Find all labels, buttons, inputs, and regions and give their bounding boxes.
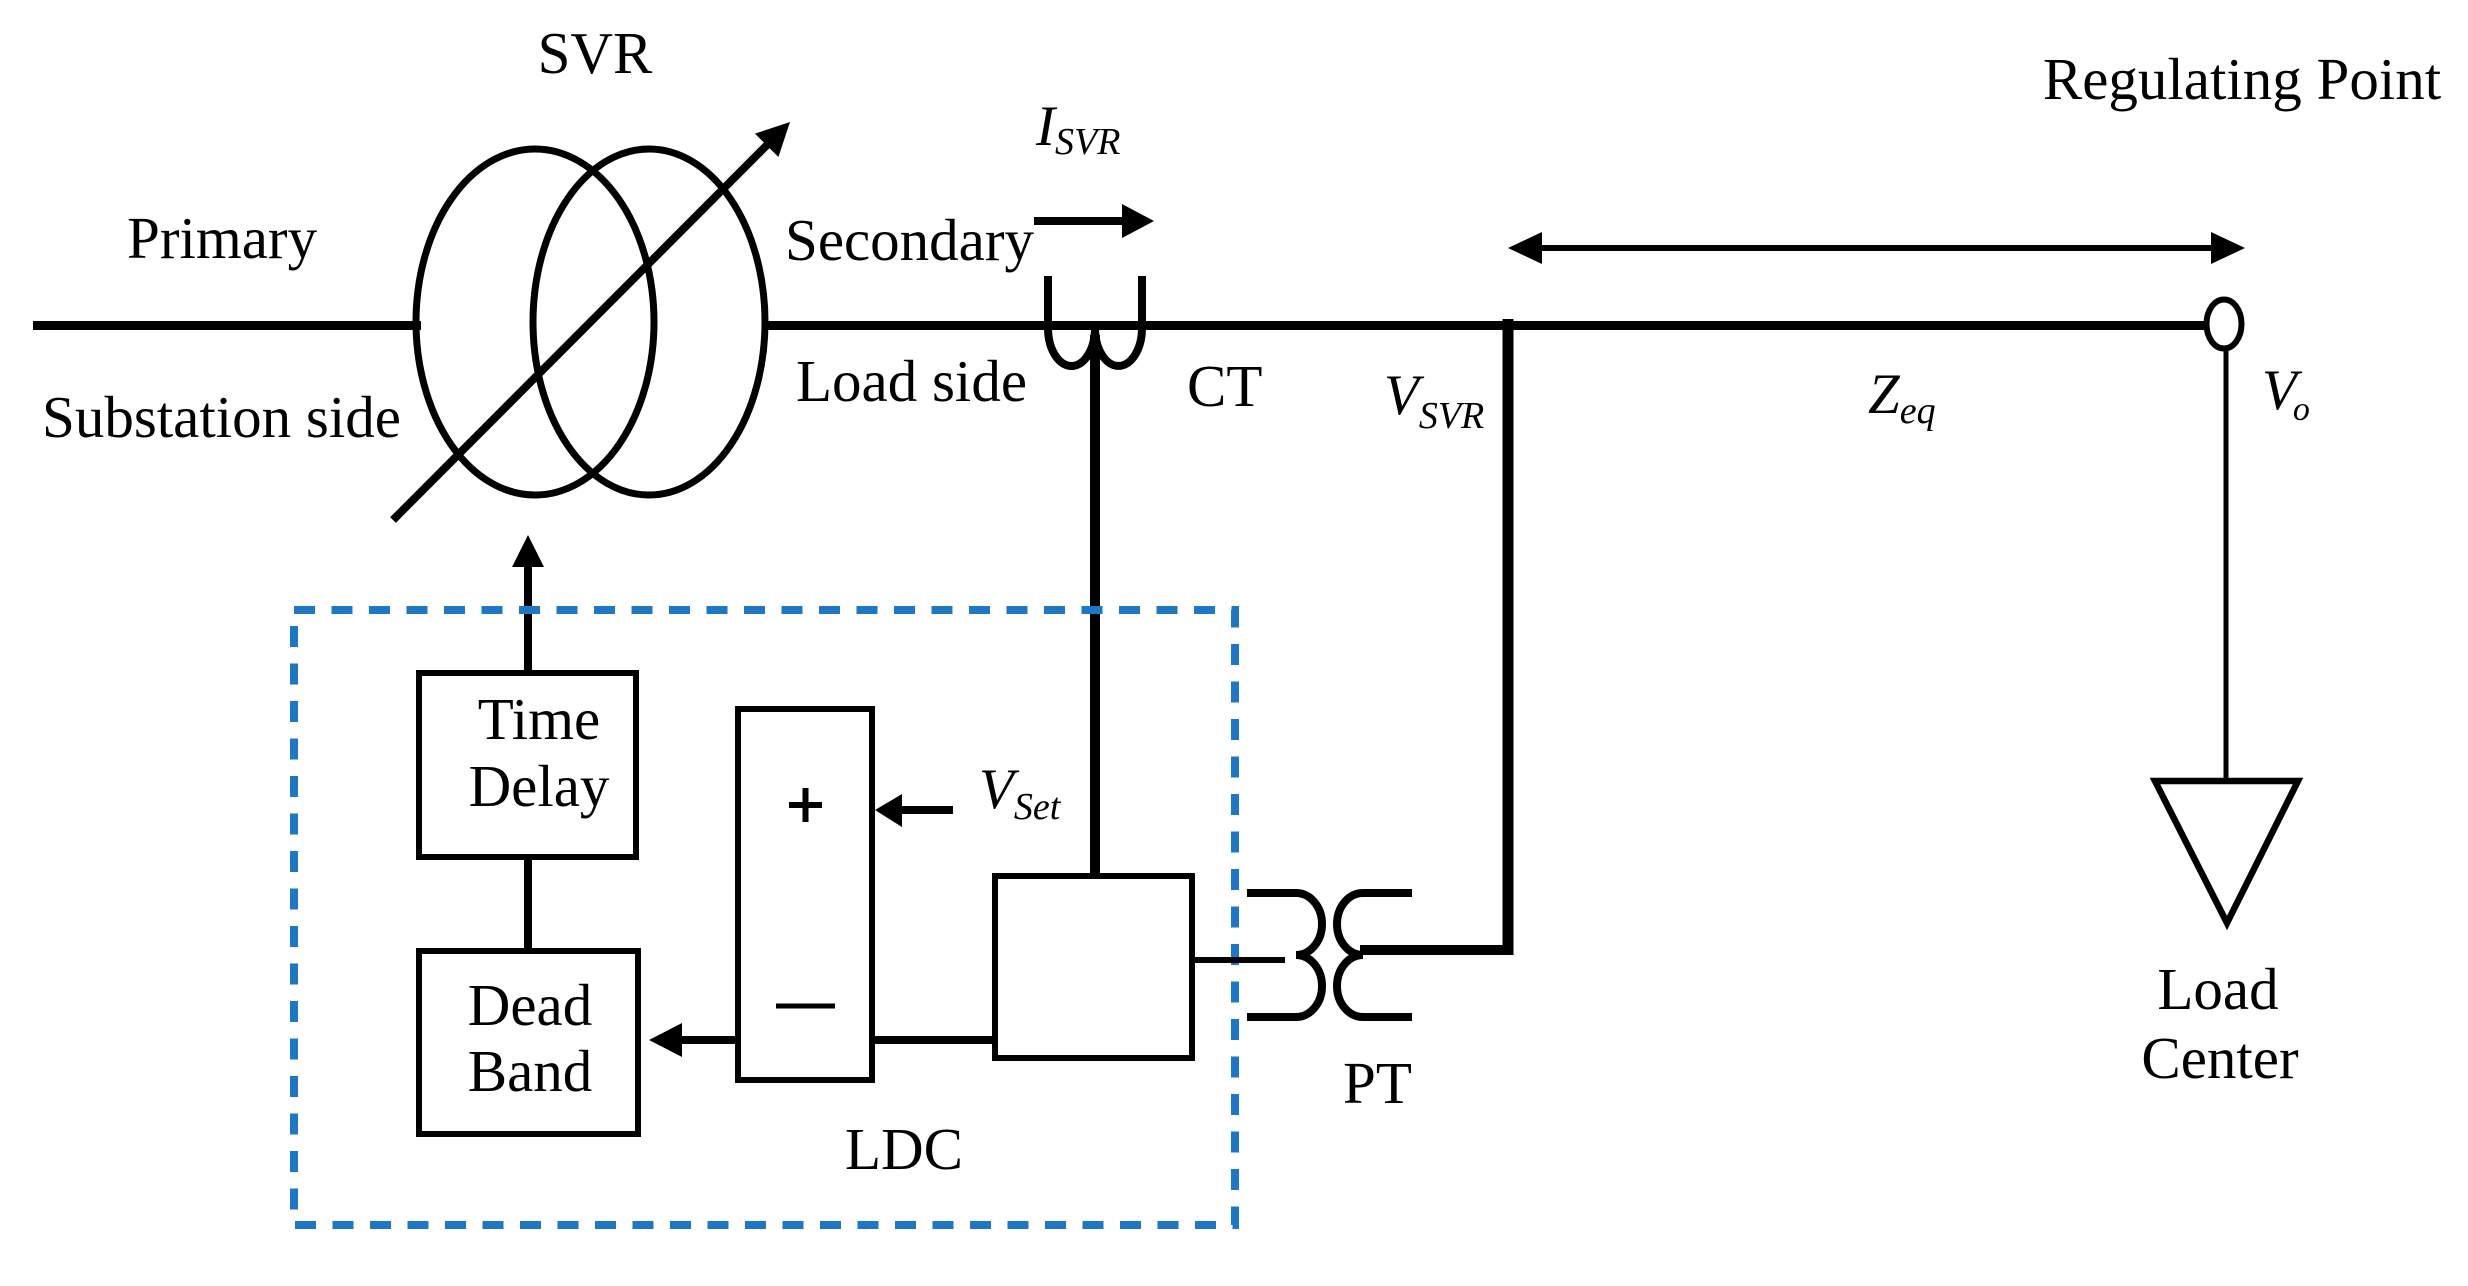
svg-text:Load side: Load side: [796, 348, 1027, 414]
svg-text:PT: PT: [1343, 1050, 1412, 1116]
svg-text:Regulating Point: Regulating Point: [2043, 46, 2442, 112]
svg-text:ISVR: ISVR: [1035, 95, 1120, 163]
svg-text:Load: Load: [2157, 956, 2278, 1022]
svg-text:Substation side: Substation side: [42, 384, 401, 450]
svg-text:SVR: SVR: [538, 20, 653, 86]
svg-text:Primary: Primary: [127, 205, 318, 271]
svg-text:Time: Time: [478, 686, 600, 752]
svg-text:CT: CT: [1187, 353, 1262, 419]
svg-text:VSVR: VSVR: [1384, 364, 1484, 437]
svg-text:VSet: VSet: [979, 758, 1062, 828]
svg-text:Secondary: Secondary: [785, 207, 1035, 273]
svg-text:Vo: Vo: [2262, 359, 2310, 428]
svg-text:Band: Band: [468, 1038, 593, 1104]
svg-text:LDC: LDC: [845, 1116, 963, 1182]
svg-text:Delay: Delay: [469, 753, 610, 819]
svg-text:Zeq: Zeq: [1868, 363, 1936, 432]
svg-text:Center: Center: [2141, 1025, 2299, 1091]
svg-text:Dead: Dead: [468, 972, 592, 1038]
